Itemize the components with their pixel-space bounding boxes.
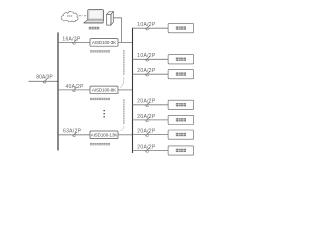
branch 5 load box: [168, 115, 194, 124]
branch 3 load box: [168, 70, 194, 79]
branch 6 load box: [168, 130, 194, 139]
dashed comm link cloud to host: [79, 15, 86, 17]
caption smart safe-electricity device 2: [90, 98, 110, 100]
branch 7 wire: [133, 150, 169, 152]
svg-text:40A/2P: 40A/2P: [66, 84, 85, 90]
rotated cable spec label 1: [120, 50, 125, 88]
svg-text:10A/2P: 10A/2P: [137, 22, 156, 28]
svg-text:20A/2P: 20A/2P: [137, 129, 156, 135]
branch 3 breaker: [146, 71, 150, 75]
branch 3 wire: [133, 73, 169, 75]
svg-text:AISD100-3K: AISD100-3K: [92, 40, 116, 45]
svg-text:AISD100-8K: AISD100-8K: [92, 88, 116, 93]
device box AISD100-13K: [90, 131, 118, 139]
monitoring host laptop: [84, 10, 104, 24]
svg-text:80A/3P: 80A/3P: [36, 75, 53, 81]
svg-text:20A/2P: 20A/2P: [137, 99, 156, 105]
svg-text:63A/2P: 63A/2P: [63, 129, 82, 135]
breaker row3: [73, 132, 77, 136]
svg-text:10A/2P: 10A/2P: [137, 53, 156, 59]
sub-distribution bus: [132, 28, 134, 153]
branch 1 breaker: [146, 25, 150, 29]
branch 2 breaker: [146, 56, 150, 60]
branch 6 breaker: [146, 132, 150, 136]
branch 1 load box: [168, 24, 194, 33]
main distribution bus: [57, 32, 59, 150]
caption smart safe-electricity device 1: [90, 50, 110, 52]
wire: device row2 to sub bus: [118, 89, 133, 91]
branch 2 load box: [168, 55, 194, 64]
breaker row1: [73, 40, 77, 44]
row1 feeder wire: [58, 41, 90, 43]
row2 feeder wire: [58, 89, 90, 91]
branch 4 wire: [133, 104, 169, 106]
caption smart safe-electricity device 3: [90, 143, 110, 145]
incoming supply wire 80A/3P: [29, 80, 59, 82]
branch 2 wire: [133, 58, 169, 60]
branch 4 breaker: [146, 102, 150, 106]
breaker QF0: [43, 78, 47, 82]
branch 7 breaker: [146, 148, 150, 152]
branch 7 load box: [168, 146, 194, 155]
wire: device row1 to sub bus: [118, 41, 133, 43]
wire: device row3 to sub bus: [118, 134, 133, 136]
svg-text:20A/2P: 20A/2P: [137, 68, 156, 74]
device box AISD100-8K: [90, 86, 118, 94]
caption: monitoring host: [89, 27, 99, 30]
row3 feeder wire: [58, 134, 90, 136]
data gateway module (3D box): [107, 12, 114, 26]
branch 6 wire: [133, 134, 169, 136]
branch 4 load box: [168, 100, 194, 109]
wire: gateway to row1 feeder: [113, 18, 121, 43]
breaker row2: [73, 87, 77, 91]
svg-text:20A/2P: 20A/2P: [137, 114, 156, 120]
device box AISD100-3K: [90, 39, 118, 47]
svg-text:AISD100-13K: AISD100-13K: [91, 132, 118, 137]
branch 5 wire: [133, 119, 169, 121]
ellipsis: more device rows: [103, 110, 105, 117]
svg-text:16A/2P: 16A/2P: [62, 36, 81, 42]
branch 1 wire: [133, 27, 169, 29]
rotated cable spec label 2: [120, 99, 124, 131]
cloud platform icon: [61, 11, 78, 21]
svg-text:20A/2P: 20A/2P: [137, 144, 156, 150]
branch 5 breaker: [146, 117, 150, 121]
